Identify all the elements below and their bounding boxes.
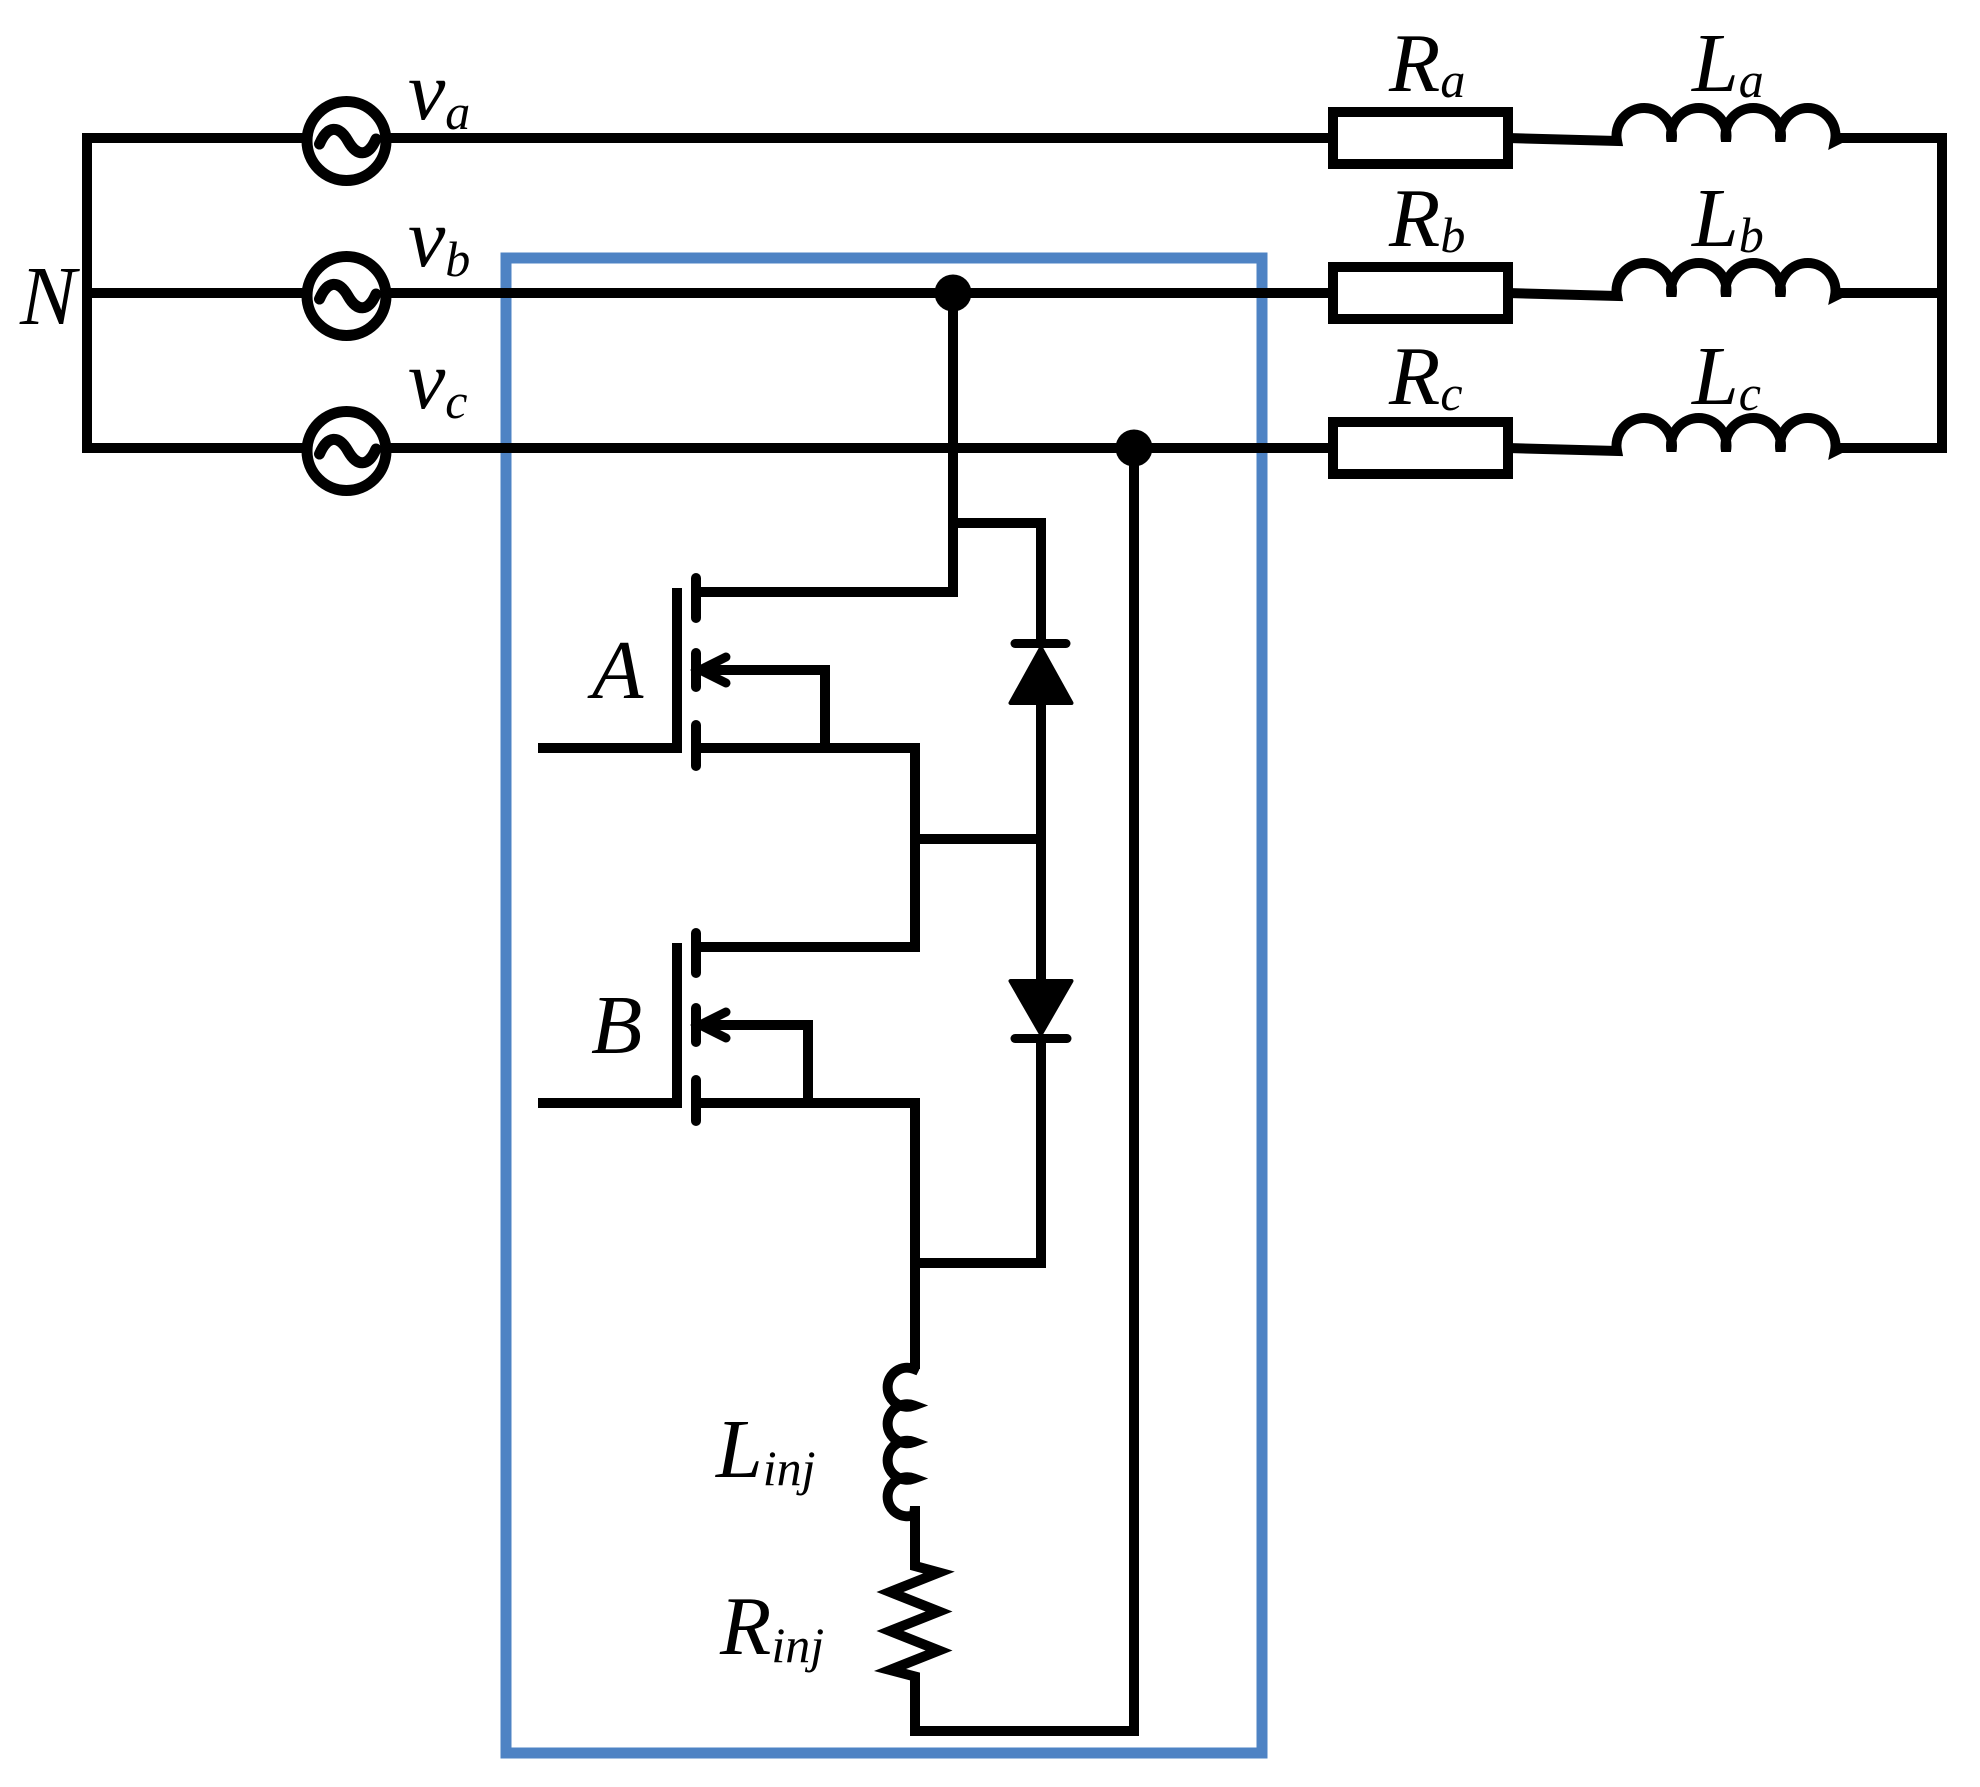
converter blue box: [506, 258, 1262, 1753]
svg-text:A: A: [587, 624, 644, 717]
resistor Ra: [1333, 112, 1508, 164]
wire branch to diode D1: [953, 523, 1041, 644]
svg-text:vb: vb: [408, 192, 470, 287]
inductor La: [1508, 108, 1947, 141]
svg-text:N: N: [19, 250, 80, 343]
inductor Lc: [1508, 418, 1947, 451]
svg-text:Ra: Ra: [1388, 17, 1465, 110]
transistor A (MOSFET): [538, 578, 958, 766]
wire bottom return: [910, 1726, 1139, 1736]
source va: [307, 102, 386, 181]
svg-text:Rinj: Rinj: [719, 1580, 824, 1673]
wire A source to B drain: [910, 748, 920, 947]
wire diode bottom to source leg: [910, 1258, 1046, 1268]
transistor B (MOSFET): [538, 933, 920, 1121]
resistor Rinj: [890, 1506, 939, 1731]
diode D1: [1011, 644, 1072, 840]
inductor Linj: [888, 1367, 915, 1516]
wire B source down: [910, 1103, 920, 1369]
svg-text:Linj: Linj: [715, 1403, 816, 1496]
svg-text:Rb: Rb: [1388, 172, 1465, 265]
wire junction to diode string: [910, 834, 1046, 844]
wire phase b: [82, 288, 1333, 298]
source vb: [307, 257, 386, 336]
inductor Lb: [1508, 263, 1947, 296]
wire phase c: [82, 443, 1333, 453]
svg-text:Rc: Rc: [1388, 330, 1463, 423]
node on phase b: [935, 275, 972, 593]
node on phase c: [1116, 430, 1153, 467]
resistor Rc: [1333, 422, 1508, 474]
svg-text:Lc: Lc: [1691, 330, 1761, 423]
svg-text:va: va: [408, 45, 470, 140]
wire phase a: [82, 133, 1333, 143]
source vc: [307, 412, 386, 491]
svg-text:B: B: [591, 979, 642, 1072]
svg-text:Lb: Lb: [1691, 172, 1764, 265]
diode D2: [1011, 839, 1072, 1263]
wire return bus to phase c: [1129, 448, 1139, 1731]
wire right bus: [1937, 133, 1947, 453]
svg-text:vc: vc: [408, 334, 468, 429]
resistor Rb: [1333, 267, 1508, 319]
wire left neutral bus: [82, 133, 92, 453]
svg-text:La: La: [1691, 17, 1764, 110]
